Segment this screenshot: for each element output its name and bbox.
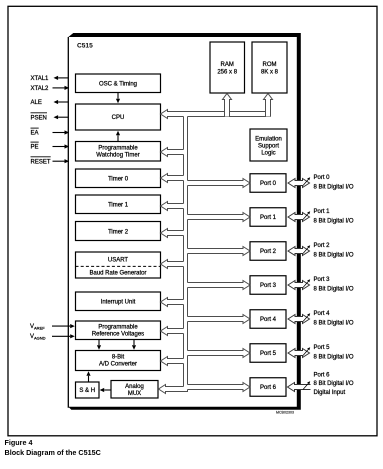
bus arrow into Timer 1 bbox=[161, 202, 184, 211]
block Port 6 bbox=[250, 378, 286, 397]
svg-text:VAGND: VAGND bbox=[30, 334, 46, 341]
block Port 2 bbox=[250, 242, 286, 261]
svg-text:8 Bit Digital I/O: 8 Bit Digital I/O bbox=[314, 381, 354, 387]
svg-text:C515: C515 bbox=[77, 43, 93, 50]
bus arrow into CPU bbox=[161, 110, 184, 119]
svg-text:8K x 8: 8K x 8 bbox=[261, 70, 279, 76]
svg-text:A/D Converter: A/D Converter bbox=[99, 362, 137, 368]
svg-text:EA: EA bbox=[31, 131, 39, 137]
svg-text:Baud Rate Generator: Baud Rate Generator bbox=[89, 271, 146, 277]
arrow Analog MUX to S and H bbox=[104, 389, 111, 391]
svg-text:Port 1: Port 1 bbox=[260, 215, 277, 221]
Port 4 external double arrow bbox=[288, 315, 310, 324]
svg-text:256 x 8: 256 x 8 bbox=[217, 70, 237, 76]
svg-text:Watchdog Timer: Watchdog Timer bbox=[96, 153, 139, 159]
svg-text:RAM: RAM bbox=[221, 62, 234, 68]
block Emulation Support Logic bbox=[250, 129, 287, 161]
Port 3 label leader arrow bbox=[303, 281, 308, 287]
bus arrow into Reference Voltages bbox=[161, 327, 184, 336]
svg-text:Figure 4: Figure 4 bbox=[5, 438, 33, 447]
pin VAGND bbox=[52, 335, 70, 337]
block Port 5 bbox=[250, 344, 286, 363]
svg-text:Port 0: Port 0 bbox=[314, 175, 331, 181]
block Timer 2 bbox=[76, 222, 161, 241]
svg-text:8 Bit Digital I/O: 8 Bit Digital I/O bbox=[314, 252, 354, 258]
svg-text:Programmable: Programmable bbox=[98, 146, 138, 152]
svg-text:Port 4: Port 4 bbox=[260, 317, 277, 323]
block Programmable Reference Voltages bbox=[76, 321, 161, 340]
bus vertical walls bbox=[183, 117, 185, 150]
bus arrow into Timer 2 bbox=[161, 229, 184, 238]
pin ALE bbox=[58, 101, 68, 103]
bus arrow into Port 4 bbox=[188, 315, 251, 324]
bus arrow into Analog MUX bbox=[159, 385, 184, 394]
svg-text:Logic: Logic bbox=[261, 151, 275, 157]
svg-text:8 Bit Digital I/O: 8 Bit Digital I/O bbox=[314, 286, 354, 292]
pin VAREF bbox=[52, 325, 70, 327]
pin XTAL1 bbox=[58, 77, 68, 79]
block Programmable Watchdog Timer bbox=[76, 142, 161, 162]
svg-text:CPU: CPU bbox=[112, 115, 125, 121]
svg-text:Port 5: Port 5 bbox=[314, 345, 331, 351]
svg-text:ALE: ALE bbox=[31, 100, 42, 106]
block Analog MUX bbox=[111, 381, 158, 399]
Port 5 external double arrow bbox=[288, 349, 310, 358]
svg-text:USART: USART bbox=[108, 258, 129, 264]
svg-text:ROM: ROM bbox=[263, 62, 277, 68]
bus arrow into USART bbox=[161, 260, 184, 269]
bus arrow into A/D Converter bbox=[161, 357, 184, 366]
svg-text:Port 6: Port 6 bbox=[314, 373, 331, 379]
Port 2 external double arrow bbox=[288, 247, 310, 256]
svg-text:Timer 0: Timer 0 bbox=[108, 177, 129, 183]
Port 5 label leader arrow bbox=[303, 349, 308, 355]
bus bottom cap bbox=[183, 391, 188, 393]
bus arrow into Port 6 bbox=[188, 383, 251, 392]
arrow Reference Voltages to A/D no.2 bbox=[133, 340, 135, 346]
bus horizontal top walls bbox=[168, 111, 225, 113]
block S &amp; H bbox=[76, 382, 100, 398]
block Port 1 bbox=[250, 208, 286, 227]
svg-text:Port 2: Port 2 bbox=[314, 243, 331, 249]
bus arrow into Watchdog Timer bbox=[161, 148, 184, 157]
bus arrow into Port 0 bbox=[188, 179, 251, 188]
Port 4 label leader arrow bbox=[303, 315, 308, 321]
pin PSEN bbox=[58, 116, 68, 118]
svg-text:Timer 1: Timer 1 bbox=[108, 203, 129, 209]
Port 3 external double arrow bbox=[288, 281, 310, 290]
svg-text:Port 5: Port 5 bbox=[260, 351, 277, 357]
bus arrow into Port 1 bbox=[188, 213, 251, 222]
svg-text:MCB02303: MCB02303 bbox=[276, 411, 294, 415]
svg-text:Emulation: Emulation bbox=[255, 137, 282, 143]
svg-text:Digital Input: Digital Input bbox=[314, 390, 346, 396]
Port 1 label leader arrow bbox=[303, 213, 308, 219]
svg-text:Block Diagram of the C515C: Block Diagram of the C515C bbox=[5, 448, 101, 457]
svg-text:Support: Support bbox=[258, 144, 279, 150]
pin EA bbox=[53, 132, 65, 134]
block ROM 8K x 8 bbox=[252, 42, 287, 93]
svg-text:Port 4: Port 4 bbox=[314, 311, 331, 317]
arrow S and H to A/D Converter bbox=[88, 376, 90, 382]
block Timer 0 bbox=[76, 169, 161, 188]
Port 6 external input arrow bbox=[288, 383, 311, 392]
Port 0 external double arrow bbox=[288, 179, 310, 188]
svg-text:Reference Voltages: Reference Voltages bbox=[92, 332, 144, 338]
svg-text:XTAL2: XTAL2 bbox=[31, 86, 50, 92]
svg-text:Timer 2: Timer 2 bbox=[108, 230, 129, 236]
pin XTAL2 bbox=[53, 87, 65, 89]
block Port 0 bbox=[250, 174, 286, 193]
arrow Watchdog to CPU bbox=[117, 135, 119, 141]
svg-text:8 Bit Digital I/O: 8 Bit Digital I/O bbox=[314, 354, 354, 360]
svg-text:VAREF: VAREF bbox=[30, 324, 45, 331]
Port 0 label leader arrow bbox=[303, 179, 308, 185]
svg-text:Port 1: Port 1 bbox=[314, 209, 331, 215]
block Timer 1 bbox=[76, 195, 161, 214]
svg-text:Port 0: Port 0 bbox=[260, 181, 277, 187]
block USART / Baud Rate Generator bbox=[76, 252, 161, 278]
arrow OSC to CPU bbox=[117, 93, 119, 99]
svg-text:Programmable: Programmable bbox=[98, 325, 138, 331]
Port 2 label leader arrow bbox=[303, 247, 308, 253]
block OSC &amp; Timing bbox=[76, 74, 161, 93]
svg-text:MUX: MUX bbox=[128, 391, 141, 397]
svg-text:S & H: S & H bbox=[79, 388, 95, 394]
block Interrupt Unit bbox=[76, 292, 161, 311]
bus arrow into Timer 0 bbox=[161, 174, 184, 183]
svg-text:XTAL1: XTAL1 bbox=[31, 76, 50, 82]
svg-text:8-Bit: 8-Bit bbox=[112, 355, 125, 361]
pin RESET bbox=[53, 160, 65, 162]
svg-text:Analog: Analog bbox=[125, 384, 144, 390]
Port 6 label leader arrow bbox=[303, 383, 308, 389]
bus arrow into Port 5 bbox=[188, 349, 251, 358]
bus arrow into Port 2 bbox=[188, 247, 251, 256]
svg-text:PE: PE bbox=[31, 145, 39, 151]
svg-text:PSEN: PSEN bbox=[31, 115, 47, 121]
pin PE bbox=[53, 146, 65, 148]
svg-text:8 Bit Digital I/O: 8 Bit Digital I/O bbox=[314, 184, 354, 190]
svg-text:Port 3: Port 3 bbox=[260, 283, 277, 289]
block Port 4 bbox=[250, 310, 286, 329]
bus arrow into Port 3 bbox=[188, 281, 251, 290]
C515 chip outline bbox=[67, 37, 69, 408]
svg-text:Port 6: Port 6 bbox=[260, 385, 277, 391]
bus riser arrow into RAM bbox=[223, 94, 232, 117]
svg-text:Interrupt Unit: Interrupt Unit bbox=[101, 300, 136, 306]
block CPU bbox=[76, 104, 161, 130]
block Port 3 bbox=[250, 276, 286, 295]
bus white cores bbox=[184, 116, 188, 391]
block 8-Bit A/D Converter bbox=[76, 351, 161, 371]
arrow Reference Voltages to A/D no.1 bbox=[98, 340, 100, 346]
svg-text:8 Bit Digital I/O: 8 Bit Digital I/O bbox=[314, 218, 354, 224]
bus riser arrow into ROM bbox=[264, 94, 273, 117]
block RAM 256 x 8 bbox=[210, 42, 245, 93]
svg-text:Port 3: Port 3 bbox=[314, 277, 331, 283]
svg-text:RESET: RESET bbox=[31, 159, 51, 165]
svg-text:8 Bit Digital I/O: 8 Bit Digital I/O bbox=[314, 320, 354, 326]
svg-text:Port 2: Port 2 bbox=[260, 249, 277, 255]
bus arrow into Interrupt Unit bbox=[161, 298, 184, 307]
svg-text:OSC & Timing: OSC & Timing bbox=[99, 82, 137, 88]
Port 1 external double arrow bbox=[288, 213, 310, 222]
